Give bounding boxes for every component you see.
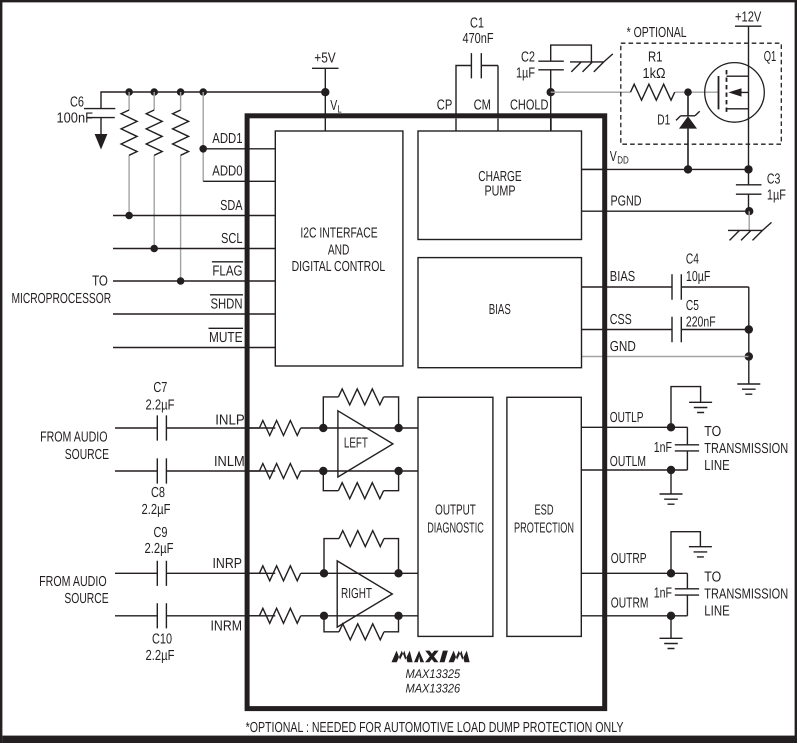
svg-text:CP: CP xyxy=(437,97,453,113)
svg-text:SOURCE: SOURCE xyxy=(65,447,109,463)
resistor pull-up 1 xyxy=(121,92,137,219)
svg-text:AND: AND xyxy=(328,242,350,258)
chassis ground below PGND xyxy=(728,211,772,240)
wire VDD stub xyxy=(582,168,605,170)
svg-text:D1: D1 xyxy=(657,113,670,129)
svg-text:Q1: Q1 xyxy=(764,49,776,65)
ground arrow below C6 xyxy=(95,118,108,150)
svg-text:INRP: INRP xyxy=(212,556,242,572)
svg-text:C5: C5 xyxy=(686,298,699,314)
svg-text:TRANSMISSION: TRANSMISSION xyxy=(704,441,788,457)
resistor pull-up 3 xyxy=(173,92,189,285)
wire INRP line xyxy=(249,566,418,581)
ground above OUTLP xyxy=(671,387,712,428)
transistor Q1 PMOS xyxy=(705,26,776,169)
capacitor C4 xyxy=(672,252,711,300)
wire ADD0 xyxy=(203,164,275,182)
capacitor C9 xyxy=(115,525,275,586)
svg-text:+5V: +5V xyxy=(314,51,336,67)
wire MUTE xyxy=(113,328,275,347)
wire INLM line xyxy=(249,464,418,479)
svg-text:V: V xyxy=(330,98,337,114)
op-amp LEFT xyxy=(338,411,393,477)
svg-text:BIAS: BIAS xyxy=(489,302,511,318)
svg-text:1kΩ: 1kΩ xyxy=(642,66,665,82)
wire OUTLP xyxy=(581,410,687,431)
node gate junction xyxy=(684,88,692,96)
wire INLP line xyxy=(249,421,418,436)
svg-text:1nF: 1nF xyxy=(654,440,672,456)
svg-text:PGND: PGND xyxy=(611,194,642,210)
svg-text:FLAG: FLAG xyxy=(212,263,242,279)
MAXIM logo xyxy=(392,651,470,663)
capacitor C5 xyxy=(672,298,716,342)
svg-text:1µF: 1µF xyxy=(516,65,535,81)
svg-text:C9: C9 xyxy=(153,525,167,541)
svg-text:OUTRP: OUTRP xyxy=(611,551,647,567)
wire INRM line xyxy=(249,608,418,623)
svg-text:LEFT: LEFT xyxy=(344,435,368,451)
wire GND (gray) xyxy=(582,339,749,356)
wire PGND xyxy=(582,194,754,216)
svg-text:100nF: 100nF xyxy=(56,111,93,127)
block charge pump xyxy=(418,131,582,240)
node VL pin label xyxy=(330,98,342,116)
label INRP INRM xyxy=(210,556,242,634)
svg-text:CM: CM xyxy=(474,97,491,113)
svg-text:C4: C4 xyxy=(686,252,699,268)
svg-text:*OPTIONAL : NEEDED FOR AUTOMOT: *OPTIONAL : NEEDED FOR AUTOMOTIVE LOAD D… xyxy=(246,720,624,736)
wire SHDN xyxy=(113,295,275,314)
svg-text:470nF: 470nF xyxy=(462,31,493,47)
wire FLAG xyxy=(113,262,275,281)
label FROM AUDIO SOURCE left xyxy=(40,430,109,463)
svg-text:OUTLP: OUTLP xyxy=(610,410,644,426)
wire right rail C4/C5 xyxy=(745,287,753,361)
svg-text:TO: TO xyxy=(704,570,721,586)
resistor pull-up 2 xyxy=(146,92,162,252)
svg-text:MAX13326: MAX13326 xyxy=(405,681,460,695)
wire CSS xyxy=(582,312,749,330)
wire ADD column xyxy=(199,92,207,181)
capacitor C10 xyxy=(115,603,275,664)
svg-text:INRM: INRM xyxy=(210,618,242,634)
svg-text:SOURCE: SOURCE xyxy=(64,591,108,607)
svg-text:SDA: SDA xyxy=(220,198,243,214)
svg-text:OUTPUT: OUTPUT xyxy=(435,503,476,519)
resistor R1 xyxy=(631,50,675,101)
wire OUTLM xyxy=(581,454,687,474)
op-amp RIGHT xyxy=(337,561,392,627)
svg-text:R1: R1 xyxy=(648,50,663,66)
block ESD protection xyxy=(507,397,581,636)
svg-text:CSS: CSS xyxy=(610,312,632,328)
ground below OUTRM xyxy=(660,616,683,649)
label TO TRANSMISSION LINE left xyxy=(704,424,788,474)
svg-text:SHDN: SHDN xyxy=(210,296,242,312)
svg-text:PROTECTION: PROTECTION xyxy=(514,521,574,537)
svg-text:C8: C8 xyxy=(151,485,165,501)
resistor feedback left top xyxy=(323,389,398,428)
label FROM AUDIO SOURCE right xyxy=(39,574,109,607)
IC MAX13325 border xyxy=(247,116,605,709)
svg-text:TO: TO xyxy=(92,273,108,289)
wire SDA xyxy=(113,198,275,216)
svg-text:ADD0: ADD0 xyxy=(212,164,242,180)
node CHOLD junction xyxy=(547,88,555,131)
ground above OUTRP xyxy=(671,532,712,574)
node left amp junctions xyxy=(319,424,403,475)
label INLP INLM xyxy=(214,412,245,470)
footnote xyxy=(246,720,624,736)
svg-text:TRANSMISSION: TRANSMISSION xyxy=(704,586,788,602)
svg-text:2.2µF: 2.2µF xyxy=(144,541,173,557)
label CP CM CHOLD pins xyxy=(437,97,551,131)
svg-text:MUTE: MUTE xyxy=(209,330,243,346)
wire +5V bus xyxy=(101,68,325,131)
svg-text:CHOLD: CHOLD xyxy=(510,97,549,113)
wire CHOLD to gate (gray) xyxy=(551,91,719,93)
block I2C interface xyxy=(275,131,403,366)
svg-text:2.2µF: 2.2µF xyxy=(141,502,170,518)
svg-text:220nF: 220nF xyxy=(686,315,716,331)
dashed optional box xyxy=(621,25,782,144)
svg-text:2.2µF: 2.2µF xyxy=(145,398,174,414)
capacitor C2 xyxy=(516,45,591,92)
svg-text:ADD1: ADD1 xyxy=(212,131,242,147)
resistor feedback right top xyxy=(324,531,399,574)
wire ADD1 xyxy=(203,131,275,149)
svg-text:LINE: LINE xyxy=(704,458,730,474)
resistor feedback right bottom xyxy=(324,616,399,640)
svg-text:SCL: SCL xyxy=(221,231,243,247)
ground below GND xyxy=(737,357,760,395)
block output diagnostic xyxy=(418,397,493,636)
wire VDD xyxy=(582,149,753,174)
wire OUTRP xyxy=(581,551,687,578)
svg-text:FROM AUDIO: FROM AUDIO xyxy=(40,430,107,446)
svg-text:OUTRM: OUTRM xyxy=(611,596,649,612)
capacitor 1nF right xyxy=(654,573,699,616)
svg-text:BIAS: BIAS xyxy=(610,269,635,285)
svg-text:* OPTIONAL: * OPTIONAL xyxy=(627,25,687,41)
svg-text:TO: TO xyxy=(704,424,721,440)
svg-text:C2: C2 xyxy=(521,50,535,66)
svg-text:1nF: 1nF xyxy=(654,585,672,601)
capacitor C1 xyxy=(456,15,498,113)
label MAX13325 MAX13326 xyxy=(405,667,460,695)
chassis ground near C2 xyxy=(570,54,613,72)
label TO MICROPROCESSOR xyxy=(11,273,111,307)
node bus junctions xyxy=(125,88,329,96)
wire OUTRM xyxy=(581,596,687,621)
capacitor C6 xyxy=(56,94,115,126)
node right amp junctions xyxy=(320,569,403,620)
resistor feedback left bottom xyxy=(323,471,398,499)
svg-text:C7: C7 xyxy=(153,380,167,396)
wire BIAS xyxy=(582,269,749,287)
ground below OUTLM xyxy=(660,470,683,504)
svg-text:PUMP: PUMP xyxy=(484,183,515,199)
svg-text:V: V xyxy=(610,149,617,165)
svg-text:ESD: ESD xyxy=(534,503,553,519)
svg-text:DIAGNOSTIC: DIAGNOSTIC xyxy=(427,521,484,537)
svg-text:DD: DD xyxy=(617,154,629,166)
svg-text:C6: C6 xyxy=(70,94,84,110)
capacitor C7 xyxy=(115,380,275,440)
diode D1 zener xyxy=(657,92,699,169)
svg-text:+12V: +12V xyxy=(735,10,762,26)
capacitor C8 xyxy=(115,458,275,518)
svg-text:DIGITAL CONTROL: DIGITAL CONTROL xyxy=(292,259,386,275)
svg-text:INLP: INLP xyxy=(215,412,245,428)
svg-text:C1: C1 xyxy=(470,15,484,31)
power +5V xyxy=(312,51,339,69)
svg-text:10µF: 10µF xyxy=(686,269,711,285)
svg-text:MICROPROCESSOR: MICROPROCESSOR xyxy=(11,291,111,307)
svg-text:C10: C10 xyxy=(152,632,172,648)
block BIAS xyxy=(418,258,582,368)
svg-text:I2C INTERFACE: I2C INTERFACE xyxy=(300,226,378,242)
svg-text:FROM AUDIO: FROM AUDIO xyxy=(39,574,106,590)
svg-text:C3: C3 xyxy=(767,171,781,187)
svg-text:LINE: LINE xyxy=(704,603,730,619)
svg-text:RIGHT: RIGHT xyxy=(341,586,372,602)
capacitor 1nF left xyxy=(654,427,699,470)
svg-text:MAX13325: MAX13325 xyxy=(405,667,460,681)
label TO TRANSMISSION LINE right xyxy=(704,570,788,620)
capacitor C3 xyxy=(736,169,786,211)
svg-text:2.2µF: 2.2µF xyxy=(145,648,174,664)
svg-text:OUTLM: OUTLM xyxy=(610,454,646,470)
svg-text:1µF: 1µF xyxy=(767,188,786,204)
wire SCL xyxy=(113,231,275,249)
svg-text:INLM: INLM xyxy=(214,454,245,470)
svg-text:GND: GND xyxy=(610,339,636,355)
power +12V xyxy=(735,10,762,27)
